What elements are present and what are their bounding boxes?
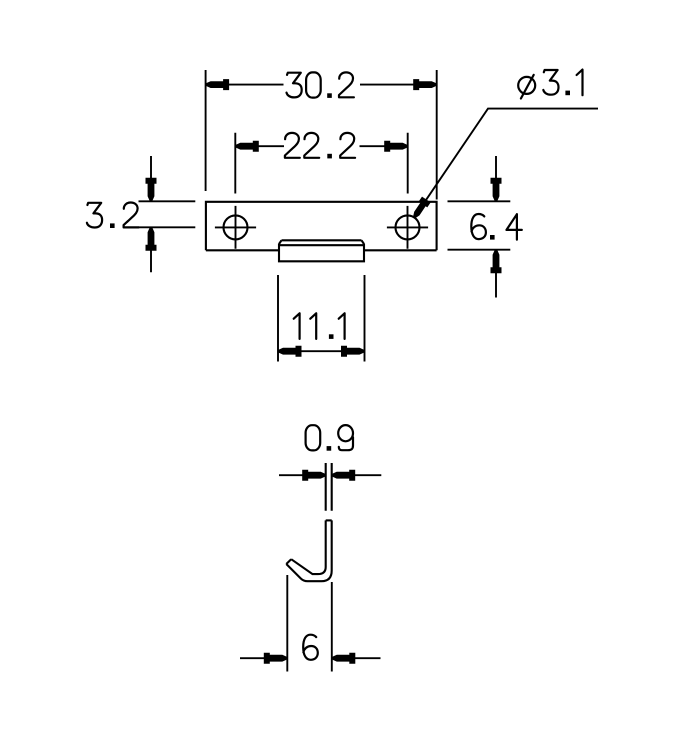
right hole centermark bbox=[387, 206, 428, 249]
hook tip cap bbox=[286, 559, 291, 564]
dimension 11.1 arrows bbox=[278, 346, 302, 357]
text 6 bbox=[303, 635, 318, 660]
dimension 22.2 line bbox=[235, 145, 407, 147]
dimension 6.4 extension lines bbox=[448, 201, 511, 249]
text 30.2 bbox=[287, 72, 354, 98]
text 6.4 bbox=[471, 214, 522, 240]
dimension 22.2 extension lines bbox=[235, 133, 407, 194]
dimension 6.4 arrows bbox=[491, 178, 502, 202]
leader line for hole diameter bbox=[414, 109, 598, 218]
left hole circle bbox=[224, 215, 248, 239]
dimension 0.9 arrows bbox=[302, 470, 326, 481]
dimension 3.2 arrows bbox=[146, 178, 157, 202]
side view upper strip (two parallel edges) bbox=[326, 463, 332, 511]
dimension 22.2 arrows bbox=[235, 141, 258, 152]
dimension 30.2 extension lines bbox=[206, 70, 437, 200]
dimension 6 extension lines bbox=[287, 575, 332, 672]
strip outer edge into hook bbox=[286, 520, 331, 581]
right hole circle bbox=[396, 215, 420, 239]
dimension 6 line bbox=[240, 657, 381, 659]
text 0.9 bbox=[306, 425, 353, 451]
leader arrow bbox=[413, 197, 431, 219]
dimension 30.2 arrows bbox=[206, 79, 230, 90]
dimension 0.9 line bbox=[279, 474, 381, 476]
tab on plate bottom edge bbox=[279, 240, 364, 261]
text 22.2 bbox=[285, 133, 355, 159]
dimension 11.1 extension lines bbox=[278, 275, 365, 362]
dimension 6 arrows bbox=[264, 653, 288, 664]
side view lower strip with top cap bbox=[326, 519, 332, 521]
plate outline (top view) bbox=[206, 202, 437, 251]
text 3.2 bbox=[87, 203, 139, 229]
dimension 11.1 line bbox=[278, 350, 365, 352]
dimension 3.2 extension lines bbox=[139, 201, 196, 227]
strip inner edge into hook bbox=[291, 520, 326, 574]
text ø3.1 bbox=[518, 70, 582, 99]
dimension 3.2 line bbox=[150, 156, 152, 272]
dimension 6.4 line bbox=[495, 156, 497, 298]
dimension 30.2 line bbox=[206, 84, 437, 86]
left hole centermark bbox=[215, 206, 256, 249]
text 11.1 bbox=[294, 313, 345, 339]
